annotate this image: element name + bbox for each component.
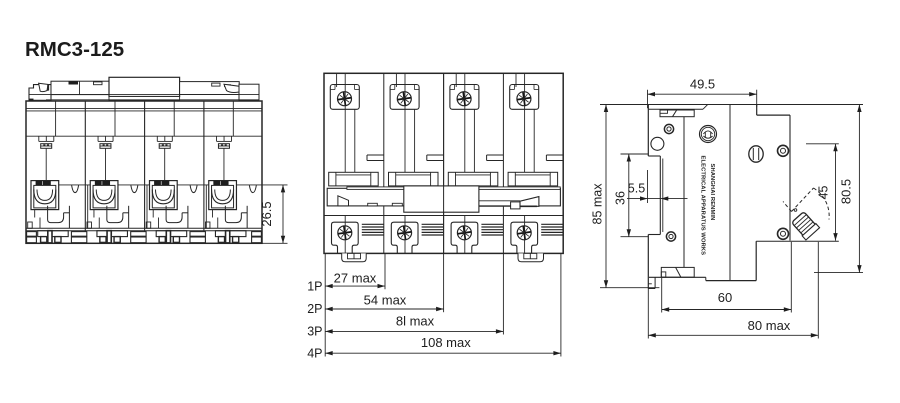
- side view inner walls: [684, 105, 839, 281]
- svg-text:SHANGHAI RENMIN: SHANGHAI RENMIN: [709, 164, 715, 221]
- front view pole 2 top wire slots: [396, 73, 405, 172]
- front view pole 2 bottom terminal screw: [398, 226, 412, 240]
- dimension 27 max (1P): [307, 271, 385, 294]
- svg-text:36: 36: [614, 191, 628, 205]
- top view body outline: [26, 101, 262, 243]
- front view pole 2-3 boundary over bar: [443, 73, 445, 253]
- top view pole 3 lower bracket: [146, 206, 188, 229]
- top view pole 3 terminal jaw: [150, 181, 178, 210]
- side view maker text: [700, 156, 716, 256]
- top view pole 2 din foot: [97, 231, 128, 243]
- front view din clip pole4: [518, 253, 544, 261]
- svg-text:80 max: 80 max: [748, 318, 791, 333]
- top view pole 4 stem line: [223, 148, 225, 180]
- svg-text:108 max: 108 max: [421, 335, 471, 350]
- front view pole 4 bottom terminal screw: [517, 226, 531, 240]
- top view pole dividers: [56, 101, 234, 243]
- front view pole 4 clamp hatch lines: [541, 224, 563, 235]
- front view pole boundary lines: [384, 73, 504, 253]
- front view pole 3 arc chamber bracket: [448, 172, 498, 186]
- svg-text:RMC3-125: RMC3-125: [25, 38, 124, 61]
- side view body outline left: [648, 105, 663, 289]
- top view handle cover assembly: [29, 77, 259, 100]
- front view pole 3 mid lines: [473, 109, 475, 172]
- top view pole 1 din foot: [38, 231, 68, 243]
- dimension 54 max (2P): [307, 292, 443, 316]
- pole width dimensions: [325, 253, 561, 356]
- side view bottom edge: [649, 277, 756, 280]
- front view right toggle assembly: [479, 197, 539, 209]
- front view pole 4 vent slot: [546, 155, 563, 161]
- front view pole 4 top terminal screw: [517, 92, 531, 106]
- side view rivet left upper: [664, 124, 673, 133]
- front view pole 3 vent slot: [487, 155, 504, 161]
- tie bar tabs: [368, 203, 378, 206]
- side view bottom mounting tab: [661, 267, 694, 277]
- svg-text:ELECTRICAL APPARATUS WORKS: ELECTRICAL APPARATUS WORKS: [700, 156, 706, 256]
- front view pole 4 top wire slots: [516, 73, 525, 172]
- front view pole 3 bottom terminal: [451, 216, 478, 254]
- top view pole 1 adjustment screw: [39, 136, 54, 148]
- svg-text:1P: 1P: [307, 279, 322, 293]
- side view rivet right lower: [778, 228, 789, 239]
- top view gap shelf lines and boundary doubles: [59, 185, 262, 228]
- dimension 108 max (4P): [307, 335, 561, 361]
- top view pole 2 lower bracket: [87, 206, 129, 229]
- dimension 36: [614, 154, 649, 237]
- top view gap notch 4: [249, 185, 256, 192]
- front view pole 4 top terminal: [510, 85, 539, 110]
- top view pole 3 stem line: [164, 148, 166, 180]
- top view gap notch 3: [190, 185, 197, 192]
- side view handle travel dashed arc: [783, 188, 829, 220]
- side view oval terminal screw: [749, 146, 763, 162]
- front view pole 1 top terminal screw: [338, 92, 352, 106]
- dimension 60: [662, 242, 792, 313]
- dimension 80.5: [814, 105, 863, 273]
- front view pole 1 clamp hatch lines: [362, 224, 384, 235]
- front view body outline: [324, 73, 563, 253]
- dimension 80 max: [648, 242, 818, 339]
- side view toggle handle: [791, 209, 820, 240]
- svg-text:26.5: 26.5: [259, 201, 274, 226]
- svg-text:49.5: 49.5: [690, 77, 715, 92]
- front view pole 2 top terminal: [390, 85, 419, 110]
- svg-text:5.5: 5.5: [628, 182, 645, 196]
- front view pole 1 top terminal: [330, 85, 359, 110]
- top view pole 2 stem line: [104, 148, 106, 180]
- top view pole 1 stem line: [45, 148, 47, 180]
- front view pole 1 arc chamber bracket: [329, 172, 379, 186]
- dimension 26.5: [259, 185, 288, 243]
- top view gap notch 1: [72, 185, 79, 192]
- top view pole 1 terminal jaw: [31, 181, 59, 210]
- dimension 8l max (3P): [307, 314, 503, 339]
- side view large circle: [651, 137, 664, 150]
- svg-text:85 max: 85 max: [591, 183, 605, 225]
- svg-text:80.5: 80.5: [839, 179, 854, 204]
- front view pole 2 top terminal screw: [397, 92, 411, 106]
- top view pole 4 adjustment screw: [217, 136, 232, 148]
- top view pole 2 adjustment screw: [98, 136, 113, 148]
- front view pole 2 vent slot: [427, 155, 444, 161]
- front view band bottom line: [324, 215, 563, 217]
- top view pole 3 din foot: [156, 231, 187, 243]
- front view pole 1 top wire slots: [337, 73, 346, 172]
- front view pole 3 top terminal: [450, 85, 479, 110]
- dimension 45: [806, 144, 839, 241]
- front view pole 4 bottom terminal: [511, 216, 538, 254]
- top view pole 4 din foot: [215, 231, 246, 243]
- front view pole 1 bottom terminal screw: [338, 226, 352, 240]
- front view pole 1 mid lines: [354, 109, 356, 172]
- svg-text:4P: 4P: [307, 346, 322, 360]
- front view centre label plate: [404, 186, 479, 212]
- front view din clip pole1: [342, 253, 367, 261]
- side view rivet left lower: [666, 232, 675, 241]
- dimension 49.5: [648, 77, 757, 109]
- top view pole 2 terminal jaw: [90, 181, 118, 210]
- svg-text:27 max: 27 max: [334, 271, 377, 286]
- dimension 5.5: [627, 170, 688, 203]
- front view pole 2 arc chamber bracket: [389, 172, 439, 186]
- side view logo: [700, 126, 717, 143]
- front view pole 1 bottom terminal: [332, 216, 359, 254]
- front view pole 1 vent slot: [367, 155, 384, 161]
- front view pole 3 clamp hatch lines: [481, 224, 503, 235]
- top view pole 3 adjustment screw: [157, 136, 172, 148]
- svg-text:45: 45: [817, 186, 831, 200]
- svg-text:60: 60: [718, 290, 732, 305]
- front view pole 3 top terminal screw: [457, 92, 471, 106]
- front view pole 4 arc chamber bracket: [508, 172, 557, 186]
- side view top edge / extension line: [600, 104, 863, 106]
- front view pole 3 top wire slots: [456, 73, 465, 172]
- top view pole 4 lower bracket: [205, 206, 247, 229]
- top view gap notch 2: [131, 185, 138, 192]
- dimension 85 max: [591, 105, 660, 288]
- top view boundary foot blocks: [27, 232, 262, 243]
- top view lower rail double line: [26, 228, 262, 230]
- side view top mounting tab: [649, 105, 708, 117]
- top view pole 4 terminal jaw: [209, 181, 237, 210]
- front view handle tie bar: [327, 187, 560, 206]
- tie bar left toggle wedge: [338, 196, 349, 206]
- side view front profile: [756, 105, 790, 281]
- top view pole 1 lower bracket: [28, 206, 70, 229]
- front view pole 2 mid lines: [414, 109, 416, 172]
- svg-text:8l max: 8l max: [396, 314, 435, 329]
- front view pole 4 mid lines: [533, 109, 535, 172]
- svg-text:2P: 2P: [307, 302, 322, 316]
- front view pole 2 bottom terminal: [391, 216, 418, 254]
- side view rivet right upper: [778, 145, 789, 156]
- svg-text:3P: 3P: [307, 325, 322, 339]
- front view pole 3 bottom terminal screw: [457, 226, 471, 240]
- svg-text:54 max: 54 max: [364, 292, 407, 307]
- front view pole 2 clamp hatch lines: [422, 224, 444, 235]
